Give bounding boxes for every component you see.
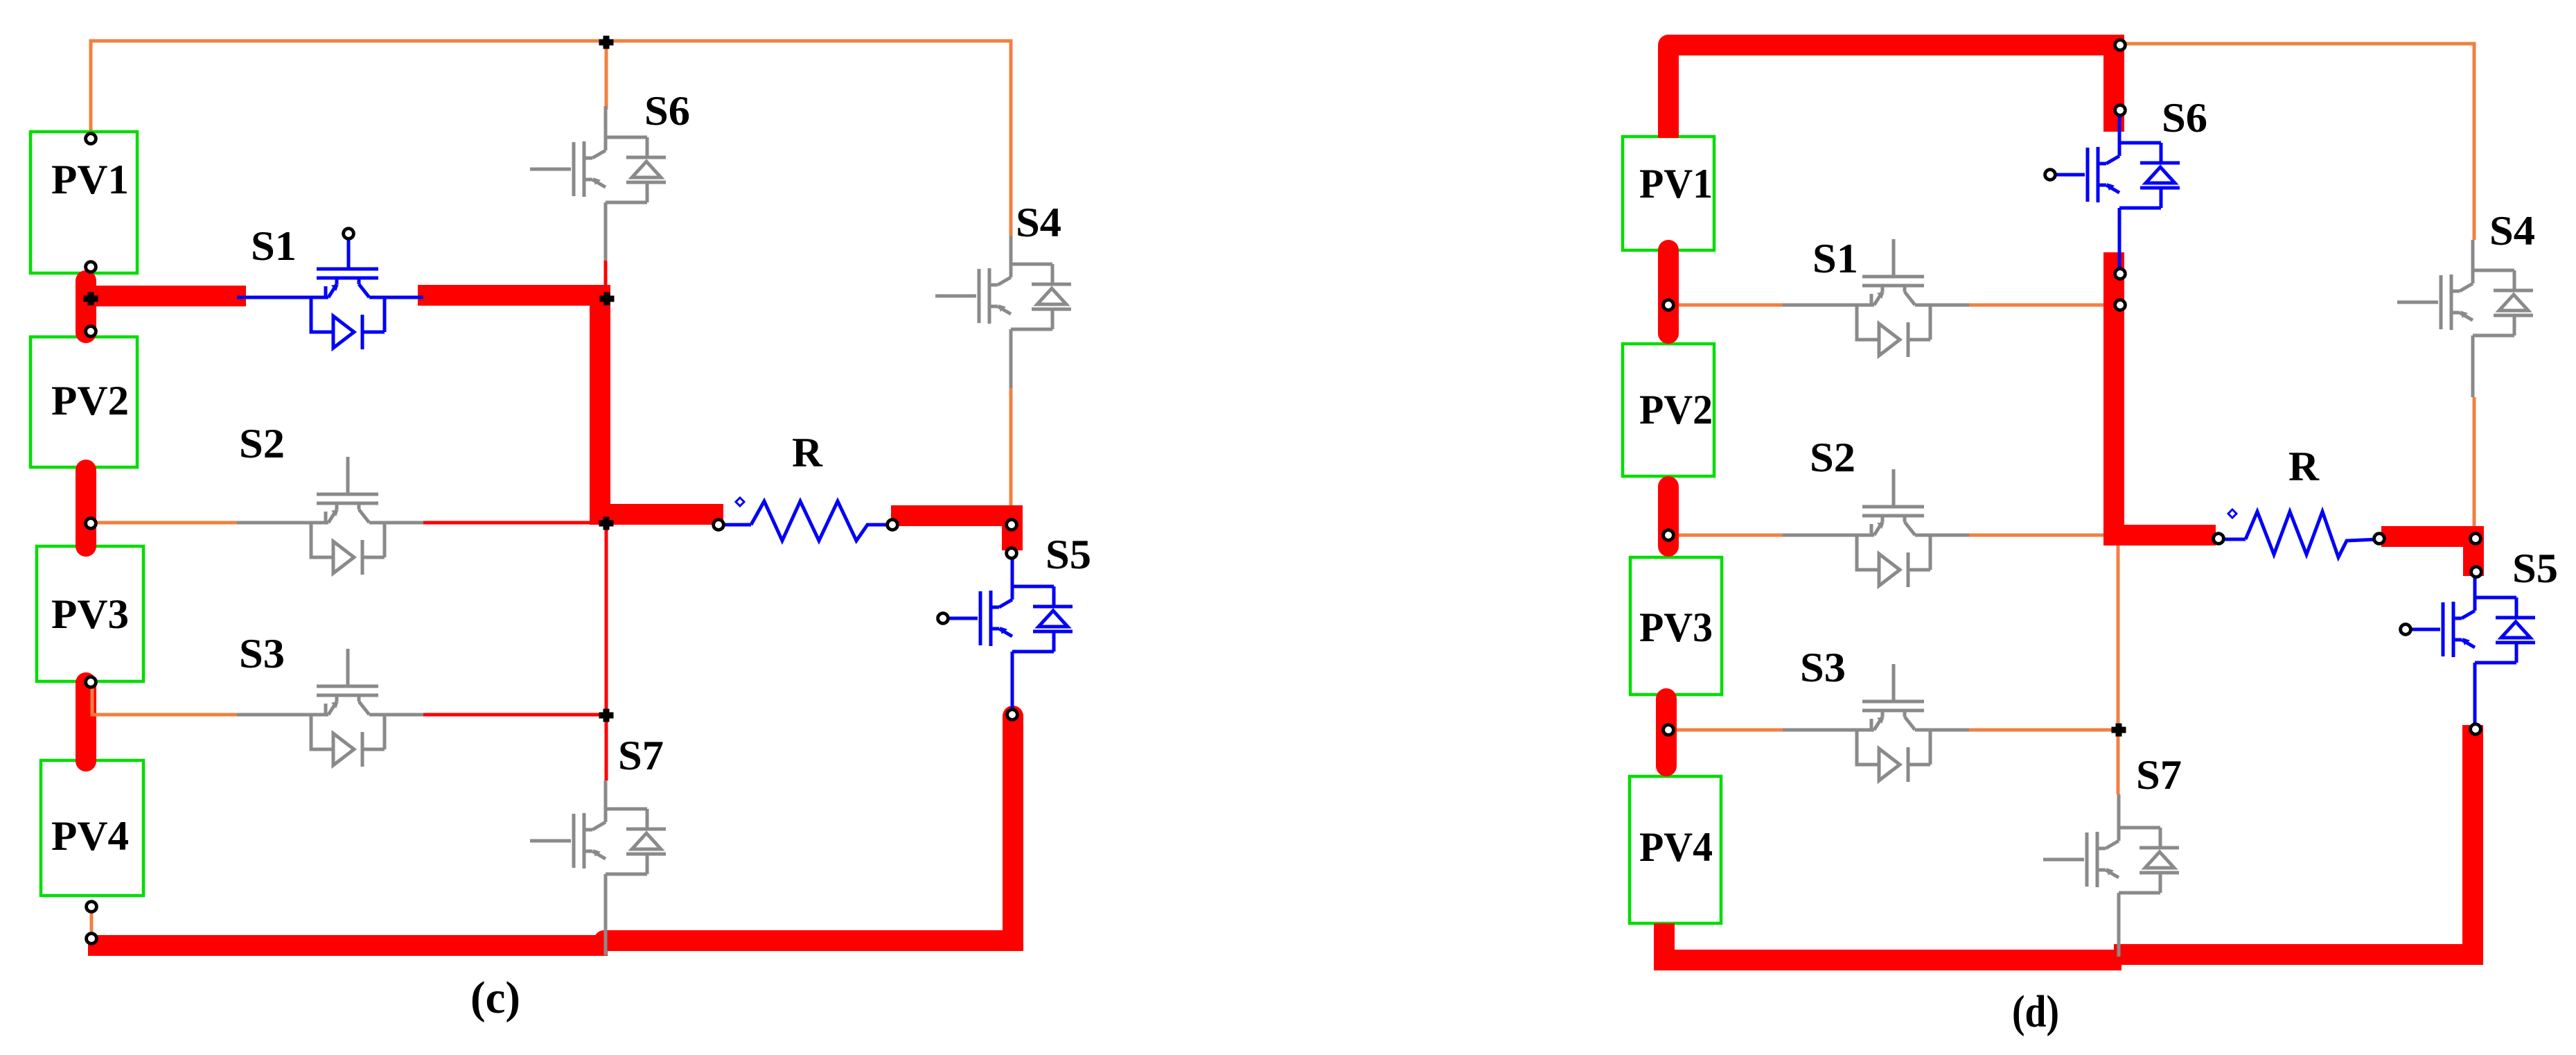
svg-text:S3: S3 [1800, 645, 1846, 690]
svg-text:PV1: PV1 [1639, 161, 1713, 207]
svg-text:PV4: PV4 [1639, 824, 1713, 870]
svg-text:S6: S6 [644, 88, 690, 134]
svg-text:S1: S1 [251, 223, 297, 269]
svg-text:S7: S7 [618, 733, 664, 778]
svg-text:S7: S7 [2136, 752, 2182, 798]
svg-text:S4: S4 [2489, 208, 2535, 254]
svg-text:PV2: PV2 [51, 378, 129, 424]
svg-text:S4: S4 [1016, 200, 1061, 245]
svg-text:R: R [2288, 444, 2320, 489]
svg-text:PV1: PV1 [51, 157, 129, 202]
svg-text:S3: S3 [239, 631, 285, 677]
svg-text:PV3: PV3 [51, 591, 129, 637]
svg-text:S6: S6 [2162, 95, 2207, 141]
svg-text:S2: S2 [1810, 435, 1855, 480]
svg-text:(c): (c) [470, 973, 520, 1023]
svg-text:(d): (d) [2012, 986, 2059, 1037]
svg-text:PV4: PV4 [51, 813, 129, 859]
svg-text:R: R [792, 430, 823, 476]
svg-text:S5: S5 [1046, 532, 1091, 577]
svg-text:PV2: PV2 [1639, 387, 1713, 433]
svg-text:S2: S2 [239, 421, 285, 467]
svg-text:S5: S5 [2512, 546, 2558, 591]
svg-text:S1: S1 [1812, 236, 1858, 281]
svg-text:PV3: PV3 [1639, 604, 1713, 650]
